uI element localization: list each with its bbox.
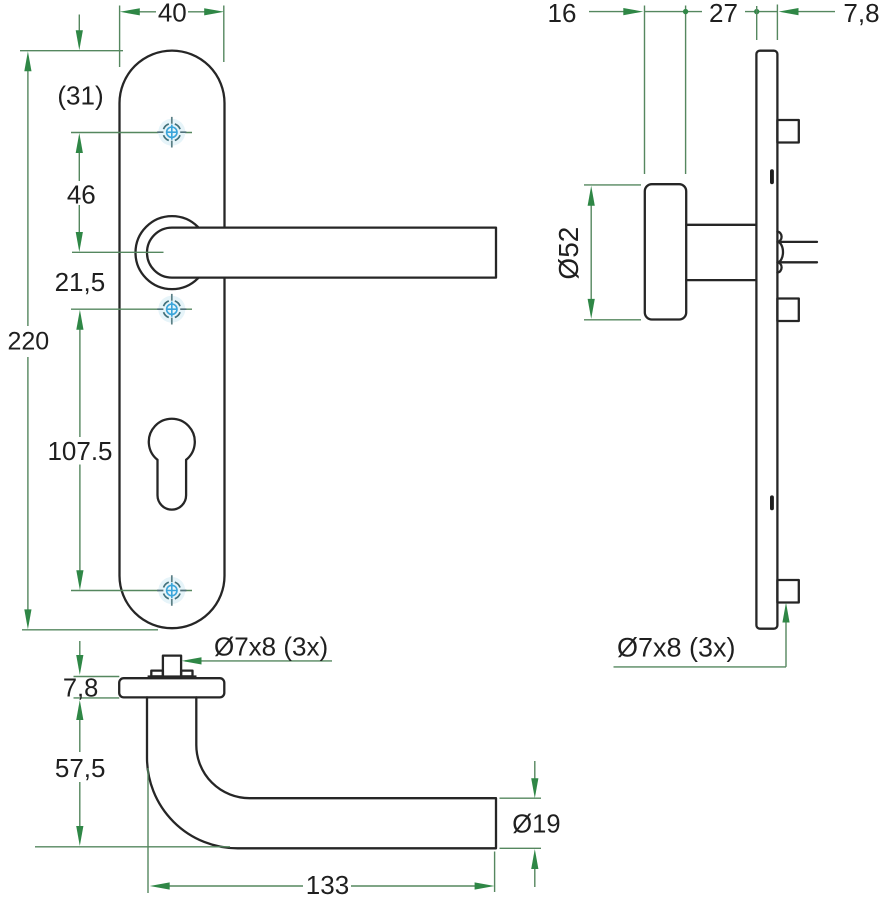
spindle stub lines [782,242,818,262]
latch tick 1 [770,169,774,184]
step left [151,671,163,677]
svg-text:Ø19: Ø19 [512,811,560,839]
dimension 220 [27,71,29,610]
svg-text:133: 133 [306,870,349,900]
dimension 40 (top) [140,11,205,13]
handle collar circle [136,216,209,289]
dimension 27 [686,11,778,13]
dimension 57,5 [79,720,81,827]
euro profile keyhole [149,419,195,510]
dimension 133 [169,885,475,887]
dimension (31) [78,15,80,32]
svg-text:220: 220 [7,328,49,356]
extension line handle centre [72,251,164,253]
washer strip [148,675,197,678]
screw boss tab 1 [777,120,798,143]
dimension Ø19 [500,798,542,848]
extension line plate front [756,6,758,40]
extension line plate bottom [22,629,158,631]
backplate side profile [756,51,777,629]
rose stem [686,225,756,280]
extension line screw hole 3 [71,590,192,592]
rose block (Ø52) [645,184,686,319]
dimension 46 [78,153,80,233]
screw boss tab 3 [777,580,798,603]
screw hole crosshair 1 [157,117,186,148]
svg-text:107.5: 107.5 [47,436,112,466]
extension line handle bottom [35,846,230,848]
extension line screw hole 2 [71,308,192,310]
svg-text:7,8: 7,8 [63,674,98,702]
svg-text:Ø7x8 (3x): Ø7x8 (3x) [214,632,328,662]
latch tick 2 [770,495,774,510]
svg-text:40: 40 [158,0,187,27]
backplate outline (stadium) [120,51,225,629]
dimension 16 [589,11,686,13]
dimension 7,8 (top right) [777,5,835,41]
svg-text:57,5: 57,5 [55,753,106,783]
svg-text:Ø7x8 (3x): Ø7x8 (3x) [617,633,736,663]
svg-text:21,5: 21,5 [55,267,106,297]
extension lines 16 [644,6,646,175]
leader Ø7x8 (3x) top [185,660,332,662]
dimension 7,8 (bottom left) [74,677,120,698]
leader Ø7x8 (3x) right [614,623,787,667]
spindle bulge on plate [777,232,783,273]
svg-text:7,8: 7,8 [843,0,879,28]
rose disc side view [119,678,224,697]
screw boss tab 2 [777,299,798,322]
extension line plate top [20,50,123,52]
screw hole crosshair 3 [157,575,186,606]
lever handle (front view) [147,228,496,278]
extension line screw hole 1 [71,132,192,134]
screw hole crosshair 2 [157,294,186,325]
svg-text:(31): (31) [57,80,103,110]
lever handle profile [147,697,496,848]
dimension 107.5 [79,330,81,571]
spindle square [163,656,181,677]
svg-text:Ø52: Ø52 [553,227,584,280]
svg-text:27: 27 [709,0,738,28]
svg-text:16: 16 [548,0,577,28]
svg-text:46: 46 [67,179,96,209]
step right [181,671,192,677]
dimension Ø52 [584,185,641,320]
